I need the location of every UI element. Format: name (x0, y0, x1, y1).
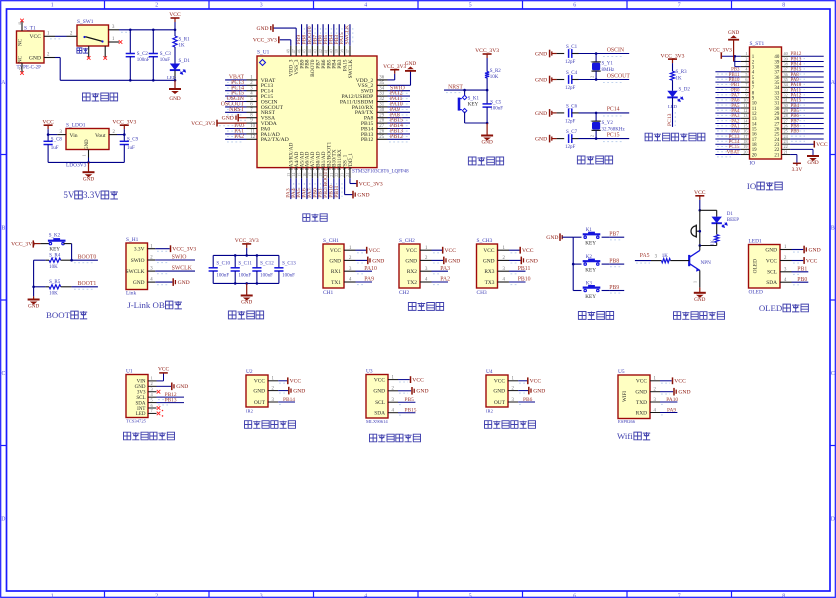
ground flag (J-Link) (155, 281, 172, 283)
capacitor S_C1 12pF (557, 53, 565, 55)
svg-text:32: 32 (379, 97, 384, 102)
svg-text:8: 8 (782, 3, 785, 9)
svg-text:GND: GND (493, 388, 505, 394)
svg-text:21: 21 (329, 173, 334, 177)
svg-text:22: 22 (334, 173, 339, 177)
svg-text:VCC: VCC (330, 248, 341, 254)
svg-text:PA10: PA10 (666, 397, 678, 403)
pin 40 PB4 of U1 (top) (333, 46, 335, 56)
caption reset circuit (468, 157, 476, 165)
pin 3 PC14 of U1 (247, 90, 258, 92)
svg-text:VCC: VCC (42, 119, 54, 125)
svg-text:5: 5 (469, 3, 472, 9)
svg-text:S_D2: S_D2 (679, 87, 691, 92)
svg-text:GND: GND (448, 258, 460, 264)
svg-text:PA9: PA9 (364, 277, 374, 283)
power VCC_3V3 of reset (483, 53, 492, 55)
pin 1 VBAT of U1 (247, 79, 258, 81)
resistor S_R3 1K (670, 71, 674, 80)
capacitor S_C2 100nF (129, 30, 131, 54)
wire and node VBAT (225, 79, 246, 81)
svg-text:S_C7: S_C7 (566, 130, 578, 135)
switch S_SW1 (77, 25, 109, 46)
module U5 WIFI ESP8266 (618, 375, 650, 419)
svg-text:GND: GND (405, 61, 416, 67)
svg-text:VCC_3V3: VCC_3V3 (191, 121, 215, 127)
wire and node PB6 (U4) (518, 401, 535, 403)
svg-text:PC13: PC13 (667, 113, 673, 126)
pin 32 of S_ST1 (782, 97, 791, 99)
LED S_D2 (667, 91, 677, 98)
ground GND of LDO block (88, 162, 90, 172)
svg-text:100nF: 100nF (216, 274, 229, 279)
svg-text:5: 5 (469, 594, 472, 598)
wire and node PA7 (hdr left) (715, 97, 740, 99)
connector S_CH3 (477, 244, 498, 288)
svg-text:VCC_3V3: VCC_3V3 (11, 242, 35, 248)
alarm top junction (699, 209, 702, 212)
svg-text:S_R5: S_R5 (49, 280, 61, 285)
svg-text:35: 35 (379, 81, 384, 86)
svg-text:GND: GND (635, 390, 647, 396)
svg-text:VCC: VCC (530, 379, 542, 385)
pin 9 of S_ST1 (741, 97, 750, 99)
wire and node PC13 (225, 84, 246, 86)
wire and node PC14 (579, 112, 630, 114)
ground flag (U2) (278, 390, 288, 392)
svg-text:KEY: KEY (585, 294, 596, 300)
pin 1 VIN of U1 module (148, 380, 157, 382)
ground GND hdr pin2 (728, 39, 739, 41)
svg-text:3: 3 (260, 594, 263, 598)
svg-text:20: 20 (752, 153, 757, 158)
regulator S_LDO1 (66, 129, 109, 150)
svg-text:VCC: VCC (494, 379, 505, 385)
svg-text:SWCLK: SWCLK (345, 25, 351, 45)
pin 21 of S_ST1 (782, 154, 791, 156)
wire and node PA4 (hdr left) (715, 112, 740, 114)
pin 21 PB10/TX of U1 (bottom) (333, 168, 335, 179)
pin 12 of S_ST1 (741, 112, 750, 114)
svg-text:SCL: SCL (375, 400, 385, 406)
svg-text:12pF: 12pF (565, 145, 576, 150)
wire and node PA10 (U5) (660, 401, 677, 403)
wire SW1 pin3 to VCC rail (119, 29, 175, 31)
pin 1 VCC of U2 (268, 380, 278, 382)
op-amp U1 body (MCU STM32F103C8T6 LQFP48) (257, 56, 377, 168)
wire and node PB7 (key) (609, 236, 624, 238)
svg-text:20: 20 (743, 149, 747, 154)
svg-text:10K: 10K (490, 75, 499, 80)
pin 46 PB9 of U1 (top) (301, 46, 303, 56)
svg-text:VCC: VCC (369, 248, 381, 254)
svg-text:GND: GND (535, 137, 547, 143)
wire and node PA0 (225, 128, 246, 130)
pin 4 PC15 of U1 (247, 95, 258, 97)
pin 20 of S_ST1 (741, 154, 750, 156)
svg-text:TXD: TXD (636, 400, 647, 406)
svg-text:RX3: RX3 (484, 269, 494, 275)
wire and node PB10 (bottom) (333, 178, 335, 199)
pin 1 VCC of S_CH1 (344, 249, 356, 251)
svg-text:PB12: PB12 (390, 134, 403, 140)
svg-text:2: 2 (155, 3, 158, 9)
svg-text:2: 2 (151, 381, 153, 386)
caption IR module (U2) (245, 421, 252, 429)
svg-text:BOOT: BOOT (46, 310, 71, 320)
svg-text:S_K2: S_K2 (49, 233, 61, 238)
wire and node PB14 (hdr right) (790, 66, 824, 68)
svg-text:KEY: KEY (585, 268, 596, 274)
capacitor S_C9 1uF (123, 135, 125, 142)
svg-text:Vout: Vout (95, 133, 106, 139)
svg-text:GND: GND (481, 140, 492, 146)
svg-text:S_R3: S_R3 (676, 70, 688, 75)
pin 3 OUT of U2 (268, 401, 278, 403)
svg-text:S_K1: S_K1 (468, 96, 480, 101)
svg-text:KEY: KEY (468, 102, 479, 108)
svg-text:GND: GND (809, 247, 821, 253)
crystal S_Y1 8MHz (595, 54, 597, 62)
wire and node PB5 (hdr right) (790, 112, 824, 114)
svg-text:GND: GND (28, 304, 39, 310)
wire and node PB14 (U2) (278, 401, 295, 403)
svg-text:VCC_3V3: VCC_3V3 (172, 247, 196, 253)
svg-text:PB9: PB9 (791, 130, 800, 135)
svg-text:34: 34 (379, 86, 384, 91)
wire and node OSCIN (579, 53, 630, 55)
svg-text:GND: GND (85, 139, 90, 150)
ground GND of BOOT (33, 296, 35, 299)
junction cap-key bottom (486, 122, 489, 125)
pin 17 PA7/AD of U1 (bottom) (311, 168, 313, 179)
resistor S_R5 10K (34, 286, 46, 288)
wire and node PB15 (U3) (398, 412, 415, 414)
svg-text:SWIO: SWIO (131, 258, 145, 264)
svg-text:SDA: SDA (374, 411, 385, 417)
pin 14 PA4/AD of U1 (bottom) (295, 168, 297, 179)
wire and node PB6 (hdr right) (790, 117, 824, 119)
push button K3 KEY (573, 290, 581, 292)
svg-text:39: 39 (334, 49, 339, 53)
wire and node PB13 (U1) (157, 402, 185, 404)
module U4 IR (486, 375, 508, 407)
filter bottom rail (213, 282, 279, 284)
svg-text:1: 1 (151, 376, 153, 381)
pin 2 GND of U5 (650, 391, 660, 393)
svg-text:GND: GND (535, 111, 547, 117)
ground GND of filter (246, 283, 248, 295)
power VCC flag (U2) (278, 380, 287, 382)
wire and node PA3 (CH2) (432, 270, 449, 272)
emitter wire to ground (699, 270, 701, 287)
wire and node PB2/BOOT1 (bottom) (327, 178, 329, 199)
capacitor S_C8 1uF (47, 135, 49, 142)
pin 39 of S_ST1 (782, 60, 791, 62)
pin 5 SDA of U1 module (148, 402, 157, 404)
wire LED bottom to collector (701, 245, 717, 247)
capacitor S_C6 12pF (557, 112, 565, 114)
svg-text:VCC_3V3: VCC_3V3 (475, 48, 499, 54)
svg-text:11: 11 (250, 130, 255, 135)
svg-text:K2: K2 (586, 255, 593, 260)
pin 4 TX1 of S_CH1 (344, 281, 356, 283)
svg-text:VCC: VCC (636, 379, 647, 385)
pin 37 SWCLK of U1 (top) (349, 46, 351, 56)
pin 4 GND of S_H1 (148, 281, 156, 283)
svg-text:1K: 1K (710, 239, 715, 245)
pin 1 VCC of U4 (508, 380, 518, 382)
pin 6 of S_ST1 (741, 81, 750, 83)
pin 3 OUT of U4 (508, 401, 518, 403)
svg-text:GND: GND (728, 30, 739, 36)
svg-text:PB0: PB0 (797, 277, 807, 283)
wire and node PA2 (CH2) (432, 281, 449, 283)
svg-text:VCC: VCC (169, 12, 181, 18)
wire and node PC14 (hdr left) (715, 143, 740, 145)
svg-text:IO: IO (747, 181, 756, 191)
svg-text:OUT: OUT (254, 400, 266, 406)
svg-text:1K: 1K (676, 76, 683, 81)
wire and node PB12 (388, 138, 411, 140)
wire and node PB4 (top) (333, 24, 335, 46)
connector S_CH1 (323, 244, 344, 288)
pin 14 of S_ST1 (741, 123, 750, 125)
svg-text:26: 26 (379, 130, 384, 135)
pin 7 NRST of U1 (247, 111, 258, 113)
svg-text:PA9: PA9 (667, 407, 676, 413)
svg-text:S_U1: S_U1 (257, 50, 270, 56)
pin 3 of SW1 (109, 29, 120, 31)
junction VCC rail R1 (174, 29, 177, 32)
svg-text:2: 2 (590, 76, 595, 78)
pin 3 RX3 of S_CH3 (498, 270, 510, 272)
LED S_D1 (170, 64, 180, 71)
wire and node PB13 (hdr right) (790, 60, 824, 62)
ground flag (CH1) (356, 259, 368, 261)
svg-text:2: 2 (590, 135, 595, 137)
ground flag at U1 VSSA pin 8 (238, 117, 246, 119)
pin 25 of S_ST1 (782, 133, 791, 135)
pin LED no connect (157, 412, 161, 416)
power VCC flag (CH3) (509, 249, 520, 251)
svg-text:CH1: CH1 (323, 290, 333, 296)
svg-text:40: 40 (329, 49, 334, 53)
svg-text:18: 18 (313, 173, 318, 177)
wire and node PA15 (hdr right) (790, 102, 824, 104)
svg-text:1K: 1K (662, 254, 669, 259)
svg-text:RX2: RX2 (407, 269, 417, 275)
caption program run indicator (645, 133, 652, 141)
svg-text:PB14: PB14 (283, 397, 295, 403)
power VCC_3V3 at U1 VDD_2 pin 36 (388, 79, 395, 81)
svg-text:VCC_3V3: VCC_3V3 (383, 64, 406, 70)
pin 29 of S_ST1 (782, 112, 791, 114)
ground GND at U1 VSS_2 pin 35 (388, 84, 411, 86)
power VCC flag (CH2) (432, 249, 443, 251)
ground GND hdr pin22 (790, 148, 813, 150)
svg-text:S_C12: S_C12 (260, 262, 274, 267)
pin 11 of S_ST1 (741, 107, 750, 109)
svg-text:3.3V: 3.3V (792, 167, 803, 173)
pin 48 VDD_3 of U1 (top) (290, 46, 292, 56)
svg-text:VCC_3V3: VCC_3V3 (661, 53, 685, 59)
svg-text:5V: 5V (63, 190, 74, 200)
svg-text:12: 12 (250, 135, 255, 140)
crystal S_Y2 32.768KHz (595, 113, 597, 121)
pin 1 VCC of S_T1 (44, 35, 55, 37)
wire and node OSCOUT (579, 79, 630, 81)
wire and node PA11 (hdr right) (790, 91, 824, 93)
pin 27 PB14 of U1 (377, 128, 388, 130)
svg-text:TX2: TX2 (407, 280, 417, 286)
svg-text:VCC: VCC (522, 248, 534, 254)
svg-text:Link: Link (126, 291, 136, 297)
svg-text:PB5: PB5 (405, 397, 415, 403)
wire and node PA5 (bottom) (301, 178, 303, 199)
wire and node PA6 (hdr left) (715, 102, 740, 104)
svg-text:SDA: SDA (766, 280, 777, 286)
pin 1 VCC of U3 (388, 379, 398, 381)
svg-text:S_R1: S_R1 (179, 38, 191, 43)
wire and node PC15 (hdr left) (715, 148, 740, 150)
junction LDO gnd (87, 161, 90, 164)
svg-text:PB9: PB9 (609, 285, 619, 291)
svg-text:8MHz: 8MHz (602, 68, 616, 73)
wire and node SWCLK (J-Link) (155, 270, 195, 272)
wire and node PB10 (hdr left) (715, 81, 740, 83)
power VCC_3V3 flag at U1 VDD_1 pin 24 (349, 178, 351, 183)
pin 2 GND of S_CH1 (344, 259, 356, 261)
pin 28 PB15 of U1 (377, 122, 388, 124)
capacitor S_C5 100nF (486, 90, 488, 104)
caption serial port circuit (408, 303, 416, 311)
resistor under LED (716, 223, 718, 234)
node NRST wire (444, 89, 487, 91)
power VCC_3V3 flag at U1 VDD_3 pin 48 (280, 39, 291, 41)
pin 45 PB8 of U1 (top) (306, 46, 308, 56)
junction crystal at OSCIN (595, 52, 598, 55)
svg-text:GND: GND (241, 300, 252, 306)
wire and node VBAT (hdr left) (715, 154, 740, 156)
svg-text:S_D1: S_D1 (179, 59, 191, 64)
svg-text:PB7: PB7 (609, 232, 619, 238)
svg-text:42: 42 (318, 49, 323, 53)
pin 19 PB1/AD of U1 (bottom) (322, 168, 324, 179)
svg-text:SDA: SDA (135, 401, 145, 406)
svg-text:S_Y2: S_Y2 (602, 121, 614, 126)
svg-text:IO: IO (750, 161, 756, 167)
pin 10 of S_ST1 (741, 102, 750, 104)
junction C9 top (123, 133, 126, 136)
svg-text:LDO3V3: LDO3V3 (66, 162, 87, 168)
wire and node PA9 (388, 111, 411, 113)
svg-text:VCC_3V3: VCC_3V3 (112, 119, 136, 125)
svg-text:6: 6 (573, 3, 576, 9)
wire and node PB9 (top) (301, 24, 303, 46)
svg-text:U1: U1 (126, 369, 133, 375)
svg-text:43: 43 (313, 49, 318, 53)
svg-text:100nF: 100nF (282, 274, 295, 279)
pin 2 GND of U1 module (148, 385, 157, 387)
ground flag (CH2) (432, 259, 444, 261)
svg-text:100nF: 100nF (137, 58, 150, 63)
svg-text:VDD_1: VDD_1 (348, 153, 354, 170)
svg-text:VCC: VCC (374, 377, 385, 383)
svg-text:C: C (1, 371, 5, 377)
svg-text:S_CH3: S_CH3 (477, 238, 493, 244)
svg-text:U4: U4 (486, 369, 493, 375)
svg-text:48: 48 (286, 49, 291, 53)
svg-text:S_C9: S_C9 (127, 137, 139, 142)
svg-text:1: 1 (82, 154, 87, 156)
pin 22 PB11/RX of U1 (bottom) (338, 168, 340, 179)
caption key circuit (578, 312, 586, 320)
wire and node SWIO (J-Link) (155, 259, 195, 261)
svg-text:PC14: PC14 (607, 107, 620, 113)
capacitor S_C10 100nF (212, 255, 214, 267)
caption IR temperature module (370, 434, 377, 442)
pin 1 of S_ST1 (741, 55, 750, 57)
svg-text:PA5: PA5 (640, 253, 650, 259)
svg-text:21: 21 (774, 153, 779, 158)
svg-text:ESP8266: ESP8266 (618, 419, 636, 424)
SW1 bottom pins no-connect (88, 46, 90, 57)
wire and node PB8 (top) (306, 24, 308, 46)
svg-text:VCC: VCC (254, 379, 265, 385)
svg-text:6: 6 (573, 594, 576, 598)
svg-text:17: 17 (307, 173, 312, 177)
svg-text:21: 21 (784, 149, 788, 154)
caption dian-yuan circuit (83, 93, 91, 101)
svg-text:10: 10 (19, 66, 23, 71)
svg-text:TCS34725: TCS34725 (126, 419, 147, 424)
pin 26 of S_ST1 (782, 128, 791, 130)
svg-text:1: 1 (51, 594, 54, 598)
pin 11 PA1/AD of U1 (247, 133, 258, 135)
wire and node PB7 (hdr right) (790, 123, 824, 125)
ground flag at U1 VSS_1 pin 23 (344, 178, 346, 194)
key circuit left rail (572, 237, 574, 290)
pin 1 VCC of S_CH2 (420, 249, 432, 251)
wire and node BOOT0 (top) (311, 24, 313, 46)
svg-text:OLED: OLED (749, 289, 763, 295)
svg-text:PB15: PB15 (405, 408, 417, 414)
pin 8 VSSA of U1 (247, 117, 258, 119)
svg-text:31: 31 (379, 103, 384, 108)
pin 7 of S_ST1 (741, 86, 750, 88)
svg-text:WIFI: WIFI (623, 391, 628, 402)
svg-text:PA3: PA3 (440, 266, 450, 272)
ground flag at U1 VSS_3 pin 47 (273, 27, 296, 29)
svg-text:NRST: NRST (448, 84, 463, 90)
module U3 MLX90614 (366, 375, 388, 419)
svg-text:S_T1: S_T1 (24, 25, 36, 31)
svg-text:CH2: CH2 (399, 290, 409, 296)
svg-text:VCC: VCC (290, 379, 302, 385)
svg-text:SWIO: SWIO (172, 255, 187, 261)
power VCC (171, 17, 180, 19)
svg-text:GND: GND (222, 116, 234, 122)
svg-text:3V3: 3V3 (137, 391, 146, 396)
svg-text:U5: U5 (618, 369, 625, 375)
svg-text:OLED: OLED (759, 303, 782, 313)
svg-text:VIN: VIN (137, 380, 146, 385)
wire and node PA3 (hdr left) (715, 117, 740, 119)
pin 3 RX1 of S_CH1 (344, 270, 356, 272)
junction crystal at OSCOUT (595, 78, 598, 81)
svg-text:12pF: 12pF (565, 86, 576, 91)
